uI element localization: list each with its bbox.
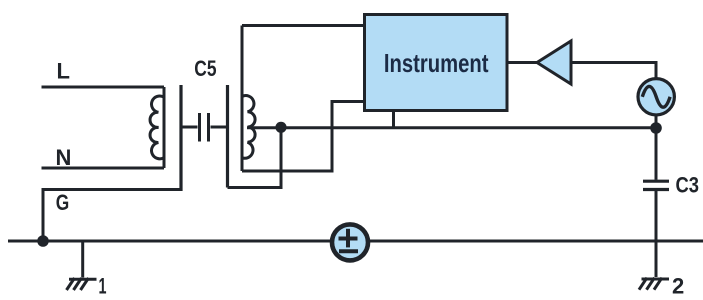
node center tap junction [275, 122, 286, 133]
transformer shield bar left [179, 85, 182, 191]
wire shield-to-tap [228, 129, 282, 188]
svg-text:2: 2 [672, 274, 684, 299]
wire node to C3 [655, 128, 658, 180]
node G bus junction [37, 235, 49, 247]
wire secondary bottom to instrument [242, 102, 365, 172]
wire bus to ground 1 [81, 241, 84, 278]
node AC junction [650, 122, 662, 134]
svg-text:C5: C5 [194, 56, 216, 81]
wire L [42, 86, 165, 89]
ground 1 chassis symbol [67, 278, 97, 290]
svg-text:N: N [56, 145, 72, 170]
bus ground wire [8, 240, 703, 243]
capacitor C5 [183, 113, 227, 142]
svg-text:Instrument: Instrument [384, 48, 489, 78]
transformer shield bar right [226, 85, 229, 188]
wire G [43, 190, 181, 242]
instrument U1 box [365, 15, 508, 111]
AC source V1 [638, 79, 674, 115]
ground 2 chassis symbol [639, 278, 669, 290]
capacitor C3 [643, 181, 669, 189]
wire C3 to ground 2 [655, 191, 658, 277]
wire N [42, 167, 165, 170]
wire center tap net [247, 126, 656, 129]
wire instrument bottom stub [392, 111, 395, 128]
DC source V2 [332, 224, 368, 260]
svg-text:C3: C3 [676, 173, 700, 198]
svg-text:1: 1 [99, 273, 107, 298]
transformer T1 primary winding [150, 87, 164, 168]
wire AC source to tap node [655, 116, 658, 129]
wire secondary top to instrument [242, 24, 365, 27]
amplifier buffer A1 [537, 41, 571, 84]
transformer T1 secondary winding [242, 26, 255, 172]
wire amplifier to AC source [571, 63, 656, 79]
svg-text:G: G [56, 190, 70, 215]
svg-text:L: L [57, 59, 70, 84]
wire instrument to amplifier [507, 61, 537, 64]
